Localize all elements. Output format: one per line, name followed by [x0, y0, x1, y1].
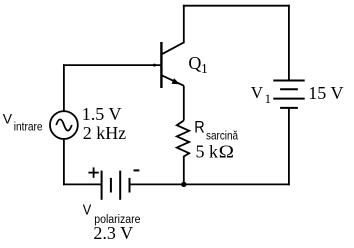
label V1 — [251, 83, 271, 106]
label plus — [88, 167, 98, 177]
wire bottom left — [64, 183, 101, 185]
source V_intrare (AC) — [50, 111, 78, 139]
svg-text:1: 1 — [265, 91, 272, 106]
svg-text:R: R — [194, 118, 204, 136]
svg-text:2.3 V: 2.3 V — [93, 223, 133, 243]
wire right rail lower — [288, 108, 290, 184]
battery V1 — [273, 81, 304, 108]
svg-text:V: V — [251, 83, 264, 102]
svg-text:Q: Q — [188, 53, 201, 73]
resistor Rsarcina — [177, 121, 189, 185]
node emitter-resistor junction — [181, 182, 186, 187]
wire right rail upper — [288, 6, 290, 81]
wire input branch lower — [63, 139, 65, 185]
svg-text:1.5 V: 1.5 V — [82, 104, 122, 124]
label 5 kOhm — [196, 142, 234, 163]
svg-text:intrare: intrare — [14, 121, 43, 134]
node base pin dot — [153, 64, 156, 67]
label V_polarizare — [83, 200, 141, 226]
svg-text:V: V — [83, 200, 92, 217]
label Q1 — [188, 53, 208, 77]
label Rsarcina — [194, 118, 239, 143]
wire input branch upper — [63, 65, 65, 111]
wire bottom right — [130, 183, 289, 185]
battery V_polarizare — [102, 171, 130, 200]
wire top rail — [184, 5, 289, 7]
svg-text:Ω: Ω — [219, 143, 234, 162]
svg-text:2 kHz: 2 kHz — [83, 123, 127, 143]
svg-text:15 V: 15 V — [308, 83, 343, 103]
wire collector riser — [183, 6, 185, 43]
label 1.5 V 2 kHz — [82, 104, 126, 143]
label V_intrare — [3, 110, 43, 133]
wire base — [64, 64, 161, 66]
label minus — [134, 169, 140, 171]
svg-text:5 k: 5 k — [196, 142, 219, 162]
transistor Q1 — [161, 42, 183, 121]
svg-text:V: V — [3, 110, 13, 126]
svg-text:1: 1 — [201, 62, 208, 77]
